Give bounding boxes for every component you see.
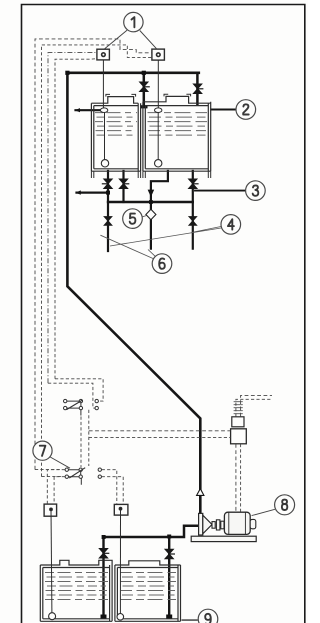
switch S7 terminals row2 xyxy=(65,475,68,478)
level switch box A xyxy=(97,49,110,60)
tank T2 legs xyxy=(143,171,211,178)
switch S7 terminals row1 xyxy=(65,468,68,471)
wire sensor rod B xyxy=(157,60,159,108)
coupling disc 1 xyxy=(216,520,220,530)
valve on tank2 outlet right xyxy=(189,179,199,189)
label 9 xyxy=(205,614,211,623)
callout circle 8 xyxy=(275,495,295,515)
callout circle 3 xyxy=(246,181,266,201)
solenoid valve body xyxy=(231,429,247,444)
wire W2 to box B lower xyxy=(42,45,152,477)
level sender box D lower right xyxy=(114,504,128,515)
wire to solenoid upper xyxy=(89,430,231,432)
leader callout 9 xyxy=(182,619,198,621)
label 3 xyxy=(253,185,259,195)
junction pipe end blob tank4 xyxy=(166,615,172,620)
arrow taper on suction stub xyxy=(75,190,81,194)
callout circle 5 xyxy=(123,209,143,229)
tank T3 lower left xyxy=(40,560,112,621)
pump shaft block xyxy=(212,522,215,529)
coupling disc 2 xyxy=(221,521,224,529)
leader callout 8 xyxy=(252,509,275,515)
motor M1 body xyxy=(224,512,250,534)
wire drop into tank4 xyxy=(168,537,170,618)
wire W4 to box A lower xyxy=(55,59,97,379)
terminal circle in box B xyxy=(157,53,161,57)
wire to solenoid lower xyxy=(89,437,231,439)
wire drop into tank2 right xyxy=(196,73,199,105)
wire tank2 outlet left xyxy=(151,171,168,249)
wire tank1 outlet right xyxy=(122,171,124,202)
wire relay K1 to switch S7 b xyxy=(88,410,90,466)
pump inlet flange riser xyxy=(199,513,203,535)
valve on drop tank2 right xyxy=(193,84,203,94)
leader callout 5 xyxy=(143,216,147,217)
wire solenoid to motor b xyxy=(240,444,242,512)
relay K1 terminals row1 xyxy=(63,399,66,402)
callout circle 4 xyxy=(221,215,241,235)
valve on drop tank4 xyxy=(165,549,175,559)
leader lines callout 4 xyxy=(110,227,221,247)
tank T4 lower right xyxy=(115,561,181,622)
wire tank1 outlet left xyxy=(107,171,109,251)
wire W3 to box A upper xyxy=(48,53,97,384)
wire switch S7 to box D b xyxy=(102,477,124,505)
terminal dot in box C xyxy=(50,508,53,511)
liquid level tank2 xyxy=(148,113,208,136)
wire sensor rod A lower xyxy=(104,113,106,160)
tank T1 upper left xyxy=(91,94,140,171)
wire branch suction stub xyxy=(77,192,109,194)
valve on tank1 outlet right xyxy=(119,179,129,189)
leader lines callout 6 xyxy=(100,235,155,258)
wire W1 to box B upper xyxy=(35,39,152,470)
motor shell line right xyxy=(244,512,246,534)
solenoid coil box xyxy=(232,417,244,427)
wire lower main pipe xyxy=(104,526,199,537)
motor end cap xyxy=(250,519,256,528)
float ball tank4 xyxy=(117,614,124,621)
junction drop tank2 left tee xyxy=(142,71,146,75)
wire tank2 outlet right xyxy=(192,171,194,249)
wire relay K1 to switch S7 a xyxy=(80,417,82,468)
junction tank4 drop tee xyxy=(167,535,171,539)
label 6 xyxy=(159,258,165,268)
wire line to callout 2 xyxy=(211,109,236,111)
switch S7 blade xyxy=(69,468,85,478)
liquid level tank4 xyxy=(121,573,177,600)
wire drain manifold xyxy=(108,201,193,203)
float ball tank1 xyxy=(101,160,108,167)
valve on tank1 outlet left xyxy=(102,179,112,189)
liquid level tank3 xyxy=(45,573,108,600)
label 1 xyxy=(132,17,135,27)
wire switch S7 to box C b xyxy=(54,477,65,504)
wire sensor rod A xyxy=(102,60,104,108)
switch S7 links xyxy=(69,470,82,485)
valve on drop tank2 left xyxy=(140,82,150,92)
wire switch S7 to box D a xyxy=(102,470,117,505)
valve on drop tank3 xyxy=(99,549,109,559)
wire sensor rod D xyxy=(119,509,121,614)
label 8 xyxy=(282,500,287,510)
relay K1 terminals row2 xyxy=(63,406,66,409)
label 5 xyxy=(130,214,136,224)
callout circle 1 xyxy=(124,12,143,31)
leader lines callout 1 xyxy=(105,30,157,49)
arrow up open on pipe to pump xyxy=(197,489,204,496)
wire W4 down to relay K1 xyxy=(55,379,103,401)
tank T1 legs xyxy=(91,171,140,178)
tank T2 upper right xyxy=(143,94,211,171)
relay K1 links xyxy=(67,401,81,415)
valve on right drain xyxy=(189,217,197,226)
wire top manifold pipe xyxy=(67,72,198,75)
gland ellipse tank1 xyxy=(100,108,107,113)
arrow down on center drain pipe xyxy=(148,190,155,197)
junction outlet corner xyxy=(106,191,110,195)
wire switch S7 to box C a xyxy=(47,470,65,504)
wire fill stub into tank1 xyxy=(76,109,101,111)
leader callout 7 xyxy=(50,457,70,468)
relay K1 blade xyxy=(67,400,83,410)
callout circle 7 xyxy=(33,441,52,460)
gland ellipse tank2 xyxy=(155,108,162,113)
junction lower main left corner xyxy=(102,535,106,539)
wire W2 into switch S7 xyxy=(42,476,63,478)
callout circle 6 xyxy=(152,254,172,274)
label 2 xyxy=(243,104,249,114)
wire transfer pipe (down, diagonal, down to pump) xyxy=(67,73,200,514)
wire W3 down to relay K1 xyxy=(48,383,95,408)
terminal circle in box A xyxy=(102,53,106,57)
pump base plate xyxy=(191,536,256,541)
label 4 xyxy=(228,219,234,229)
wire drop into tank3 xyxy=(102,537,104,617)
float ball tank2 xyxy=(155,160,162,167)
level switch box B xyxy=(152,49,165,60)
wire solenoid riser b xyxy=(241,395,272,416)
callout circle 2 xyxy=(236,100,256,120)
liquid level tank1 xyxy=(95,113,137,136)
arrow taper on fill stub xyxy=(75,108,80,112)
wire solenoid to motor a xyxy=(235,444,237,512)
label 7 xyxy=(40,446,46,456)
motor shell line left xyxy=(228,512,230,534)
terminal dot in box D xyxy=(119,507,122,510)
wire drop into tank2 left xyxy=(143,73,146,107)
conduit hatching xyxy=(234,402,243,414)
junction center pipe on drain manifold xyxy=(149,200,153,204)
strainer diamond on center drain xyxy=(146,209,156,219)
wire sensor rod C xyxy=(50,509,53,612)
wire line to callout 3 xyxy=(195,190,245,192)
junction drop blob into tank2 left xyxy=(140,105,147,108)
valve on left drain xyxy=(104,217,112,226)
junction top left corner xyxy=(65,71,69,75)
wire W1 into switch S7 xyxy=(35,469,62,471)
float ball tank3 xyxy=(49,613,56,620)
callout circle 9 xyxy=(198,609,218,623)
junction pipe end blob tank3 xyxy=(101,615,107,620)
wire sensor rod B lower xyxy=(157,113,159,160)
pump casing cone xyxy=(203,515,212,534)
wire solenoid riser a xyxy=(236,399,272,416)
level sender box C lower left xyxy=(44,504,57,516)
